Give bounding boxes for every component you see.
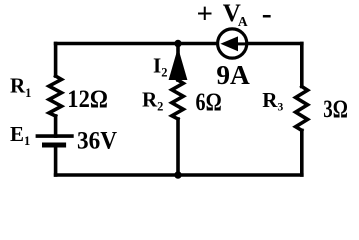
- svg-text:36V: 36V: [77, 128, 117, 155]
- svg-text:9A: 9A: [216, 60, 250, 90]
- svg-text:+: +: [197, 0, 214, 30]
- svg-text:-: -: [262, 0, 272, 30]
- svg-text:3Ω: 3Ω: [323, 96, 348, 123]
- svg-text:6Ω: 6Ω: [196, 89, 222, 116]
- svg-text:12Ω: 12Ω: [67, 86, 108, 113]
